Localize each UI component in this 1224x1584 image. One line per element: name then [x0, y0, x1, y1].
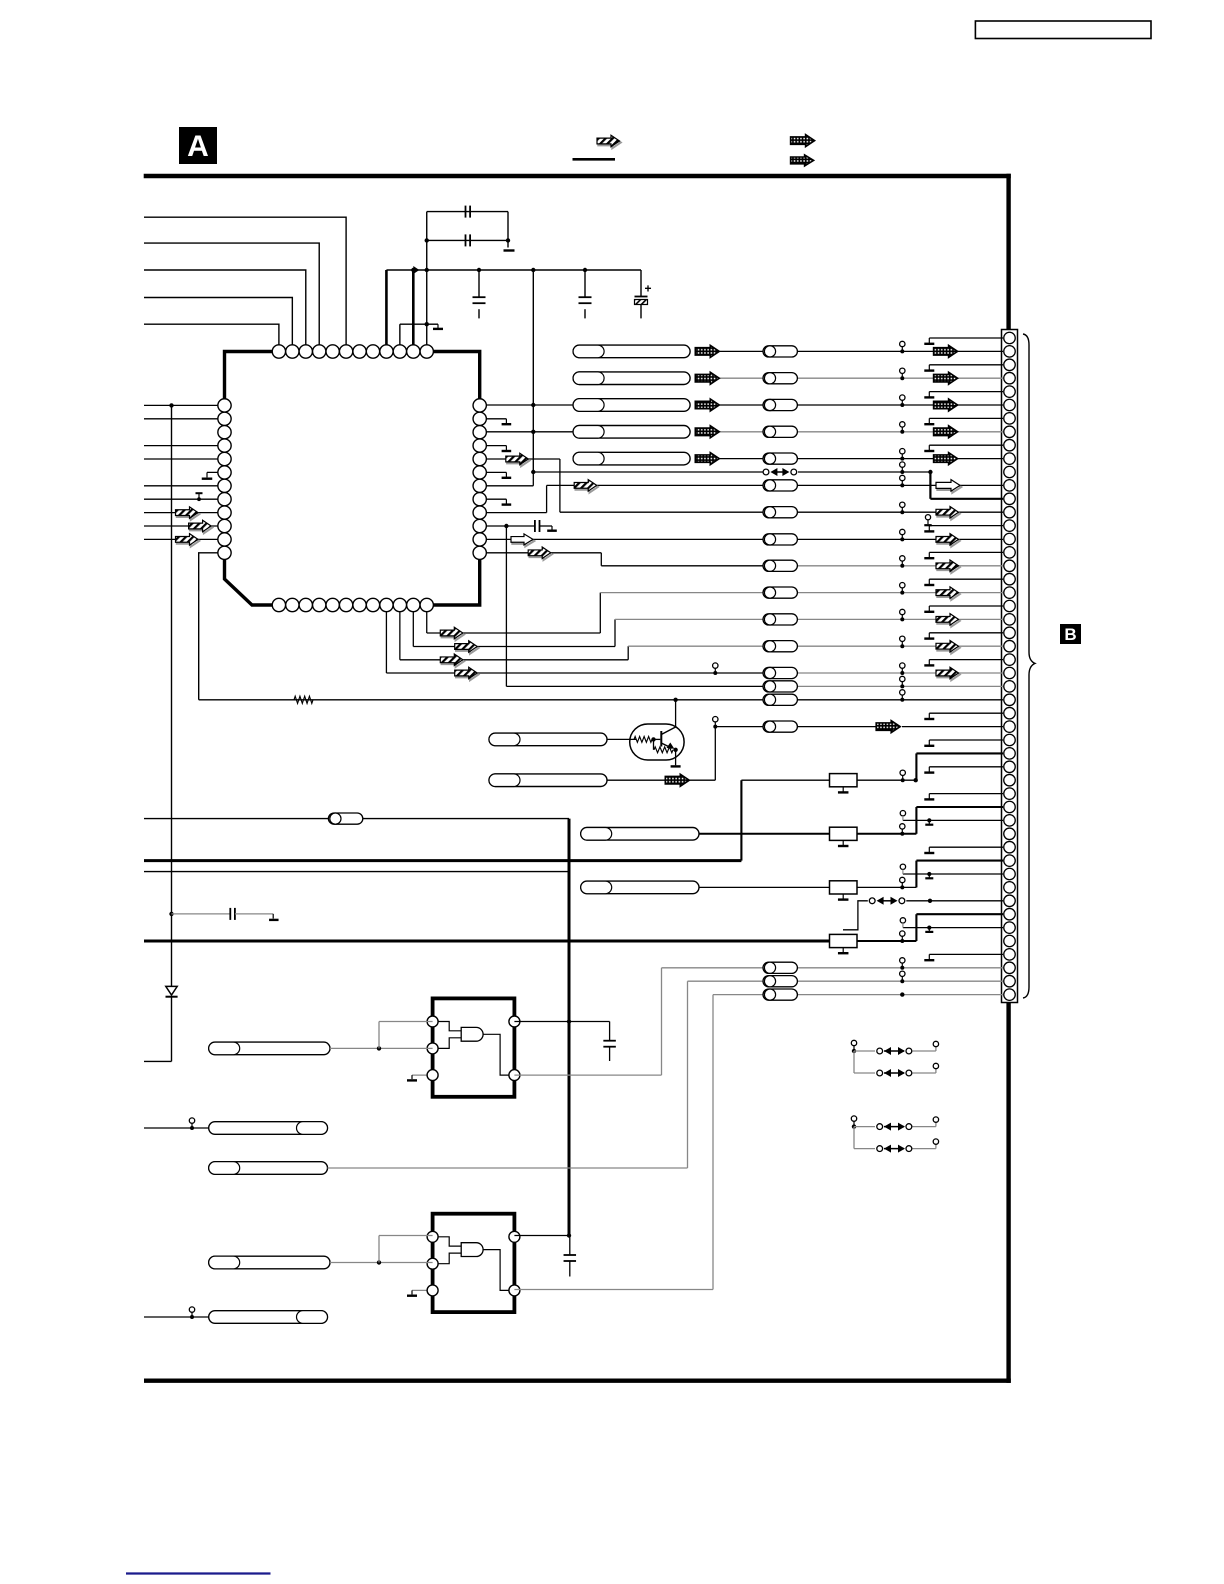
svg-text:B: B: [1064, 625, 1076, 644]
svg-text:A: A: [187, 130, 209, 163]
svg-text:+: +: [645, 282, 652, 296]
